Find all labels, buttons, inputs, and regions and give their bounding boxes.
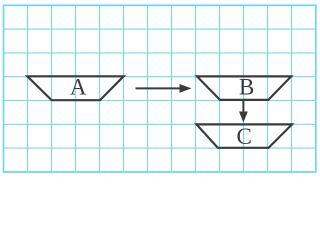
- trapezoid B: [197, 76, 291, 100]
- svg-text:B: B: [239, 75, 254, 100]
- trapezoid C: [197, 124, 293, 147]
- grid horizontal lines: [4, 29, 316, 148]
- arrow A to B: [136, 84, 192, 93]
- svg-text:C: C: [237, 124, 252, 149]
- grid vertical lines: [28, 5, 292, 172]
- arrow B to C: [239, 101, 248, 123]
- grid frame: [4, 5, 316, 172]
- trapezoid A: [27, 76, 123, 100]
- svg-text:A: A: [70, 75, 87, 100]
